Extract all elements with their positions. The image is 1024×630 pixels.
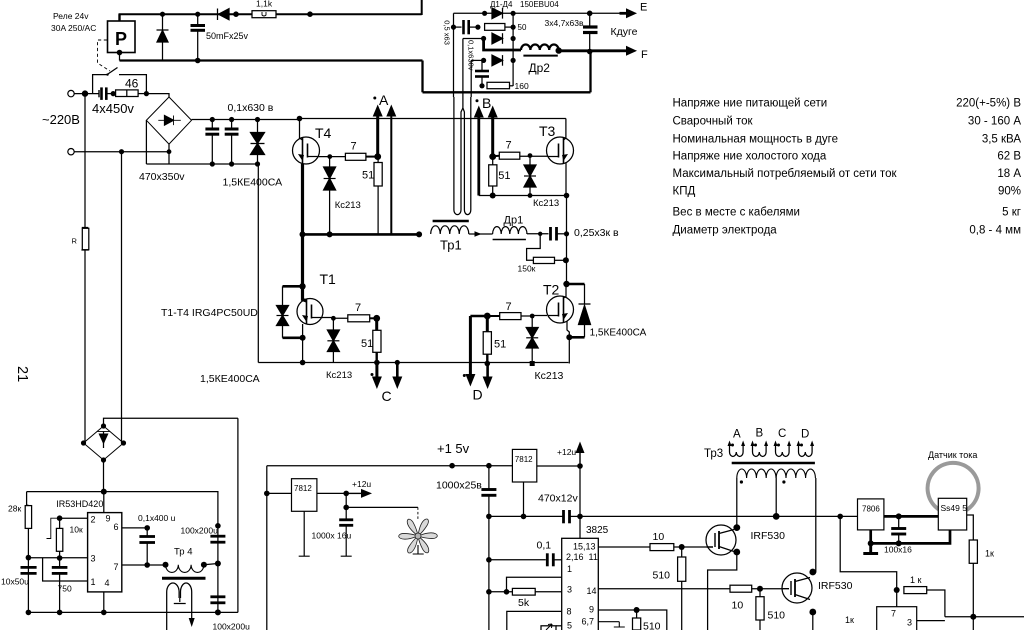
wire block bottom line [423, 91, 591, 93]
label Др2 underline [523, 55, 557, 57]
svg-text:Напряже ние питающей сети: Напряже ние питающей сети [673, 98, 828, 110]
resistor 510 (gate1) [681, 547, 683, 557]
wire bridge bottom corner down [168, 144, 170, 152]
svg-text:Реле 24v: Реле 24v [53, 11, 89, 21]
svg-text:2,16: 2,16 [566, 552, 584, 562]
svg-text:470x12v: 470x12v [538, 493, 578, 505]
wire R7 to gate node (T1) [370, 317, 377, 319]
capacitor 1000x16u [345, 493, 347, 519]
capacitor 470x12v [562, 510, 565, 523]
svg-text:10к: 10к [70, 525, 83, 535]
wire fan drop (dashed) [417, 507, 419, 519]
wire Tp4 right to cap column [204, 564, 218, 565]
arrow C1 [374, 360, 380, 366]
svg-text:0,8 - 4 мм: 0,8 - 4 мм [969, 225, 1021, 237]
node 10k bottom / pin3 [57, 555, 63, 561]
capacitor C 50mFx25v [197, 14, 199, 24]
capacitor 0,1x400u [146, 528, 148, 536]
wire pin 1 [43, 558, 88, 581]
wire rail corner to T3 collector [564, 119, 566, 141]
svg-text:Максимальный потребляемый от с: Максимальный потребляемый от сети ток [673, 168, 898, 180]
svg-text:2: 2 [91, 515, 96, 525]
wire Др1 to snubber [527, 233, 549, 235]
node Tp4 right [201, 562, 207, 568]
wire gate link to D1 [470, 315, 487, 318]
svg-text:D: D [801, 429, 809, 441]
svg-text:9: 9 [589, 605, 594, 615]
capacitor 3x4,7x63в [589, 13, 591, 26]
node pin1 branch [504, 589, 510, 595]
capacitor 470x350v #1 [211, 120, 213, 129]
node IC supply rail [101, 489, 107, 495]
node D marker dot [463, 374, 466, 377]
IC comparator box [877, 607, 917, 630]
svg-text:8: 8 [567, 607, 572, 617]
sensor U4 Ss495 box [938, 498, 966, 530]
node snubber tap [538, 232, 542, 236]
svg-text:Сварочный ток: Сварочный ток [673, 116, 754, 128]
wire diode row3 corner from column C [471, 59, 483, 61]
wire emitter bottom rail [258, 362, 568, 364]
resistor 28k [25, 506, 31, 529]
zener Кс213 (T4) [329, 157, 331, 167]
bridge VD1 internal diode [158, 119, 181, 121]
wire T1 gate [322, 317, 348, 320]
wire R150k to column [555, 259, 567, 261]
node E rail cap junction [587, 11, 593, 17]
wire resistor to node [138, 93, 146, 95]
node cap1 bottom [210, 161, 215, 166]
svg-text:750: 750 [58, 584, 72, 594]
resistor 150к [533, 257, 554, 263]
bridge VD2 diamond [84, 426, 124, 460]
wire thermistor down to aux bridge [84, 250, 86, 443]
wire sensor gnd rail thick [871, 530, 950, 543]
arrow B1 (gate drive) [491, 117, 494, 157]
svg-text:46: 46 [125, 77, 139, 91]
svg-text:Т2: Т2 [543, 282, 560, 298]
wire VT2 source down [812, 612, 814, 630]
svg-text:510: 510 [768, 610, 786, 622]
wire comp pin3 lead [917, 620, 945, 622]
relay K1 box [108, 21, 136, 53]
wire T2 emitter to rail [567, 322, 569, 364]
diode D5 (vertical, cathode up) [157, 31, 168, 43]
svg-text:6,7: 6,7 [582, 617, 595, 627]
node Kc213 bottom (T3) [528, 193, 533, 198]
svg-text:Тр1: Тр1 [440, 238, 462, 253]
svg-text:3: 3 [567, 585, 572, 595]
zener Кс213 (T1) [332, 318, 334, 330]
svg-text:+12u: +12u [557, 447, 576, 457]
svg-text:Д1-Д4: Д1-Д4 [490, 0, 513, 9]
fan M1 [398, 518, 438, 553]
capacitor 4x450v [100, 87, 103, 100]
wire T3 gate [520, 155, 548, 157]
node top rail x=310 [307, 11, 313, 17]
node T2 gate/Kc213 [530, 314, 535, 319]
wire to 7812-1 [267, 492, 292, 494]
node snubber 160 left [479, 83, 484, 88]
svg-text:7812: 7812 [294, 484, 312, 493]
sensor ring (gray arc) [928, 463, 979, 511]
svg-text:10: 10 [732, 600, 744, 612]
transistor VT2 IRF530 [782, 573, 812, 603]
node cap1 top [210, 117, 215, 122]
node snubber cap row on column A [451, 25, 456, 30]
wire snubber R path [527, 234, 541, 260]
wire aux bridge minus down [103, 460, 105, 492]
svg-text:3,5 кВА: 3,5 кВА [982, 134, 1022, 146]
node comparator in [894, 587, 900, 593]
wire 7812-2 gnd down [523, 482, 525, 516]
node Др2 out [556, 47, 562, 53]
wire 5k line [489, 591, 513, 593]
node Tp4 left [163, 562, 169, 568]
wire relay bottom to 24v return rail [119, 53, 121, 61]
svg-text:А: А [379, 92, 389, 108]
wire R160 to column [510, 85, 514, 87]
node VT2 source [809, 609, 816, 616]
node A marker dot [373, 97, 376, 100]
node T4 gate/Kc213 [327, 154, 332, 159]
node D3 anode [481, 58, 486, 63]
node AC2 aux tap [119, 149, 124, 154]
resistor 51 (T2) [486, 316, 489, 332]
capacitor 0,5x63 (plates vertical) [462, 20, 465, 34]
node center tap on +12 rail [773, 513, 780, 520]
wire 28k feed [27, 492, 29, 506]
zener Кс213 (T3) [529, 156, 531, 165]
svg-text:14: 14 [587, 586, 597, 596]
capacitor 0,25х3кв [549, 227, 552, 241]
wire R7 to gate node (T2) [487, 315, 499, 317]
resistor 51 (T3) [492, 157, 494, 165]
svg-text:R: R [72, 237, 78, 246]
node 7812-1 input branch [264, 491, 270, 497]
node T1 gate drive [373, 315, 380, 322]
IC 7812 #2 box [512, 449, 536, 482]
Tp3 secondary winding A [728, 441, 746, 457]
node pin9 / 510 [634, 607, 640, 613]
svg-text:1к: 1к [845, 615, 854, 625]
node Kc213 rail (T2) [530, 361, 535, 366]
node cap2 bottom [229, 161, 234, 166]
Tp4 secondary center tap [174, 598, 186, 604]
Tp1 core bar [433, 220, 469, 222]
node T1 gate/Kc213 [331, 316, 336, 321]
node 51 bottom (T3) [490, 193, 496, 199]
wire pin11 lead [598, 546, 650, 548]
svg-text:Т1: Т1 [320, 271, 337, 287]
phase dot primary 1 [740, 480, 743, 483]
svg-text:С: С [382, 388, 392, 404]
resistor 7 (T2 gate) [500, 313, 521, 320]
svg-text:51: 51 [361, 338, 373, 350]
resistor 1k (sensor) [969, 540, 977, 563]
wire rectifier column B [462, 39, 464, 98]
resistor 10 (gate2) [730, 585, 752, 592]
node 5k line left [486, 589, 492, 595]
wire IC supply rail [27, 491, 217, 493]
resistor 50 [485, 24, 505, 31]
arrow D1 [469, 316, 472, 375]
dashed link relay to switch [98, 40, 111, 71]
wire return rail drop at x=422 [421, 61, 423, 93]
node D1 cathode junction [510, 11, 515, 16]
svg-text:7: 7 [114, 562, 119, 572]
phase dot primary 2 [782, 480, 785, 483]
wire 7812-2 output to +12 node [537, 465, 580, 467]
resistor 7 (T4 gate) [345, 153, 366, 160]
resistor 10k [59, 518, 61, 528]
wire main cathode column [512, 13, 514, 86]
arrow A1 (gate drive) [376, 116, 379, 157]
svg-text:1 к: 1 к [910, 575, 922, 585]
node 7806 gnd rail [868, 540, 874, 546]
node TVS bottom [255, 161, 260, 166]
svg-text:7: 7 [506, 140, 512, 152]
IC U2 IR53HD420 box [88, 513, 122, 592]
svg-text:0,1x630 в: 0,1x630 в [228, 102, 274, 114]
wire cap column [216, 492, 219, 613]
node T3 gate drive [489, 153, 496, 160]
wire minus rail [146, 163, 257, 165]
Tp3 secondary winding D [797, 441, 815, 457]
resistor 1k (comparator) [904, 587, 927, 594]
wire 7812-1 gnd [299, 511, 310, 556]
node T4 collector on rail [297, 116, 303, 122]
svg-text:3: 3 [91, 554, 96, 564]
svg-text:51: 51 [362, 170, 374, 182]
svg-text:F: F [641, 49, 648, 61]
wire T4 emitter thick column [301, 164, 304, 286]
node D2 cathode [510, 36, 515, 41]
svg-text:В: В [482, 95, 491, 111]
wire comparator ic top [896, 590, 898, 607]
wire comparator branch [840, 516, 897, 590]
svg-text:+1 5v: +1 5v [437, 441, 470, 456]
wire cap row [454, 26, 462, 28]
wire AC2 tap down to aux bridge [122, 152, 124, 443]
wire aux bottom rail [28, 611, 238, 613]
svg-text:30 - 160 А: 30 - 160 А [968, 116, 1021, 128]
node +15 to 7812-2 [449, 463, 455, 469]
wire minus bus down [257, 164, 259, 363]
svg-text:T1-T4 IRG4PC50UD: T1-T4 IRG4PC50UD [161, 307, 258, 319]
wire pin6,7 ground [598, 622, 625, 627]
wire right column down [237, 418, 239, 612]
resistor 510 (pin9) [636, 610, 638, 618]
svg-text:5 кг: 5 кг [1002, 207, 1021, 219]
wire TVS to emitter (T2) [569, 336, 584, 339]
resistor 7 (T3 gate) [499, 152, 520, 159]
node T3 emitter column [564, 193, 570, 199]
bypass switch wire right [119, 75, 146, 94]
node 1000x25 top [486, 463, 492, 469]
svg-text:50: 50 [518, 23, 527, 32]
arrow E output [620, 12, 630, 15]
wire to gate2 [752, 588, 783, 590]
wire +12 down to rail [579, 466, 581, 516]
node gate2 [757, 586, 763, 592]
svg-text:11: 11 [589, 552, 598, 562]
arrow D2 [485, 361, 491, 367]
svg-text:150к: 150к [518, 264, 536, 274]
bridge VD1 diamond [146, 97, 191, 144]
svg-text:1000x25в: 1000x25в [436, 480, 482, 492]
wire +15v rail [267, 465, 513, 467]
svg-text:30A 250/AC: 30A 250/AC [51, 23, 96, 33]
svg-text:0,1x400 u: 0,1x400 u [138, 513, 176, 523]
node snubber R left [475, 25, 480, 30]
TVS 1,5KE400CA (T2) [584, 284, 586, 304]
svg-text:~220В: ~220В [42, 112, 80, 127]
wire Tp1 secondary U1 [454, 108, 463, 215]
svg-text:150EBU04: 150EBU04 [520, 0, 559, 9]
capacitor 1000x25в [488, 466, 490, 489]
node rail to comparator branch [837, 514, 843, 520]
wire R50 to column [505, 26, 513, 28]
svg-text:Е: Е [640, 2, 647, 14]
node D3 cathode [510, 58, 515, 63]
svg-text:Ss49 5: Ss49 5 [941, 503, 968, 513]
node +12 rail left [577, 514, 583, 520]
node T1 collector [299, 283, 305, 289]
wire pin 3 [28, 557, 87, 559]
svg-text:51: 51 [494, 339, 506, 351]
node cap column mid [215, 561, 221, 567]
node bottom rail left [26, 610, 32, 616]
wire diode row2 corner from column B [463, 38, 484, 40]
svg-text:9: 9 [106, 514, 111, 524]
svg-text:Др1: Др1 [504, 215, 524, 227]
wire pin9 lead [598, 610, 667, 630]
svg-text:Кс213: Кс213 [326, 370, 352, 381]
wire stub below node [972, 617, 974, 630]
wire T3 emitter rail [479, 195, 567, 197]
svg-text:+12u: +12u [352, 479, 371, 489]
Tp3 primary group 1 [737, 469, 776, 478]
wire bottom right line [945, 616, 1024, 618]
wire T2 gate [521, 315, 547, 318]
capacitor 100x200u #1 [210, 535, 225, 538]
wire cap to node [469, 26, 478, 28]
capacitor 750 [59, 558, 61, 567]
svg-text:5: 5 [567, 621, 572, 630]
node T1 emitter [300, 335, 306, 341]
node cap column bottom rail [215, 609, 221, 615]
svg-text:0,1: 0,1 [537, 540, 552, 552]
terminal AC1 [68, 90, 74, 96]
svg-text:КПД: КПД [673, 186, 696, 198]
wire AC2 line [74, 151, 169, 153]
wire TVS link (T1) [283, 285, 303, 288]
capacitor 100x16 [898, 516, 900, 527]
wire T3 emitter [565, 163, 567, 196]
svg-text:Датчик тока: Датчик тока [928, 450, 977, 460]
wire plus rail from bridge [192, 119, 300, 121]
svg-text:5k: 5k [518, 597, 530, 609]
svg-text:Напряже ние холостого хода: Напряже ние холостого хода [673, 151, 827, 163]
inductor Др1 [493, 227, 527, 234]
wire pin 9 to supply rail [103, 492, 105, 513]
arrow C2 [395, 360, 400, 365]
svg-text:0,25х3к в: 0,25х3к в [574, 227, 619, 239]
svg-text:62 В: 62 В [997, 151, 1021, 163]
switch blade [107, 68, 118, 75]
arrow Tp4 secondary out [189, 618, 195, 627]
svg-text:50mFx25v: 50mFx25v [206, 31, 249, 41]
wire fan feed line [346, 506, 418, 508]
diode D3 (cathode right) [492, 55, 503, 66]
wire F line [559, 49, 620, 52]
svg-text:Вес в месте с кабелями: Вес в месте с кабелями [673, 207, 800, 219]
Др1 core line [493, 239, 526, 241]
resistor 7 (T1 gate) [348, 315, 370, 322]
svg-text:51: 51 [498, 170, 510, 182]
wire 7806 gnd [869, 530, 872, 544]
node TVS top [255, 117, 260, 122]
svg-text:3825: 3825 [586, 525, 609, 536]
node cap-resistor [111, 91, 116, 96]
wire pin8 line [507, 611, 563, 630]
svg-text:100x200u: 100x200u [181, 526, 219, 536]
wire rectifier column A (left) [453, 13, 455, 97]
svg-text:7812: 7812 [515, 455, 533, 464]
wire sensor output [967, 515, 974, 540]
wire AC1 column down [84, 94, 86, 228]
capacitor 100x200u #2 [210, 595, 225, 598]
svg-text:1к: 1к [985, 549, 994, 559]
capacitor 0,1 [546, 553, 549, 566]
resistor 10 (gate1) [650, 544, 674, 551]
wire 5k to pin3 [535, 591, 562, 593]
node VT1 drain [733, 524, 740, 531]
svg-text:Кдуге: Кдуге [611, 26, 638, 38]
svg-text:10: 10 [653, 531, 665, 543]
svg-text:21: 21 [14, 366, 30, 382]
arrow F output [620, 49, 629, 52]
transistor T4 (IGBT) [293, 137, 320, 164]
label Реле 24v 30A 250/AC [51, 11, 96, 33]
wire Tp1 secondary leg B [463, 97, 465, 210]
resistor R 1,1k [252, 11, 276, 18]
wire pin14 lead [598, 588, 730, 590]
node aux bridge top [101, 423, 106, 428]
svg-text:7: 7 [355, 302, 361, 314]
resistor 51 (T4) [377, 157, 379, 163]
Tp3 core bar [732, 462, 815, 465]
wire T4 collector [300, 119, 303, 141]
node gnd rail left [486, 514, 492, 520]
svg-text:В: В [756, 428, 764, 440]
node after diode D6 [233, 11, 239, 17]
svg-text:Др2: Др2 [529, 61, 551, 75]
wire aux bridge plus to right column [104, 418, 238, 426]
Tp4 core bar [162, 577, 206, 580]
svg-text:1: 1 [567, 564, 572, 574]
node +12 net [577, 463, 583, 469]
svg-text:510: 510 [643, 621, 661, 630]
node 100x16 bottom [896, 540, 902, 546]
wire relay top to +24 rail [118, 14, 120, 21]
wire R7 to gate node [366, 156, 378, 158]
node link Tp1 [416, 231, 422, 237]
Tp3 secondary winding B [751, 441, 769, 457]
arrow B2 (emitter return) [477, 117, 480, 196]
node C marker dot [371, 373, 374, 376]
